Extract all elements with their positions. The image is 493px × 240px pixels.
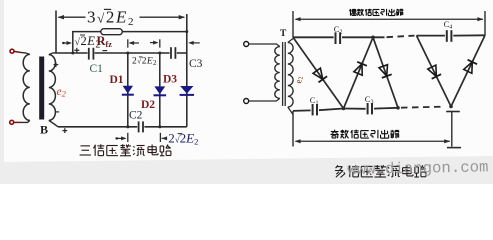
svg-text:D3: D3 [163, 74, 177, 86]
svg-text:T: T [280, 29, 287, 39]
svg-text:3√2E2: 3√2E2 [87, 8, 135, 29]
svg-text:C3: C3 [189, 58, 203, 70]
svg-text:C1: C1 [90, 63, 104, 75]
svg-text:www.diangon.com: www.diangon.com [347, 158, 488, 179]
svg-text:2√2E2: 2√2E2 [168, 130, 198, 146]
svg-text:C2: C2 [129, 110, 143, 122]
svg-text:B: B [40, 123, 48, 137]
svg-text:e2: e2 [57, 86, 67, 99]
svg-text:D1: D1 [110, 74, 124, 86]
svg-text:D2: D2 [141, 99, 155, 111]
